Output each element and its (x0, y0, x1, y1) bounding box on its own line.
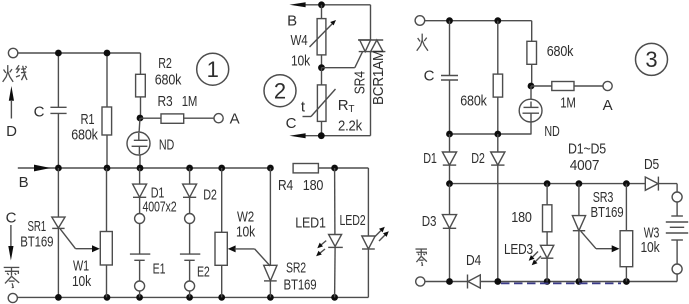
svg-text:ND: ND (544, 123, 559, 140)
resistor 1M circuit3 (531, 82, 603, 91)
svg-text:B: B (19, 174, 29, 191)
svg-text:A: A (603, 97, 613, 114)
wire: circuit1 top rail (18, 52, 141, 54)
svg-text:D5: D5 (644, 156, 659, 173)
wire: battery bottom to rail (676, 274, 678, 282)
wire: E2 to bottom rail (189, 291, 191, 297)
svg-text:BT169: BT169 (20, 234, 53, 251)
svg-text:ND: ND (159, 137, 174, 154)
svg-text:C: C (34, 104, 45, 121)
node: live terminal circuit3 (415, 16, 425, 26)
node: battery top connector circle (672, 192, 682, 202)
resistor R2 (136, 53, 146, 118)
blue dashed artifact line (501, 282, 621, 284)
svg-text:680k: 680k (460, 93, 487, 110)
LED3 light arrows (down-left) (529, 252, 541, 266)
thermistor Rt 2.2k (303, 68, 336, 136)
node: R2/R3/ND junction (137, 115, 144, 122)
node: top rail / 680k junction (494, 17, 501, 24)
label Rt 2.2k (338, 97, 363, 135)
wire: bus B circuit1 (18, 167, 369, 169)
svg-text:10k: 10k (236, 224, 256, 241)
label: huoxian (live wire) hand-drawn (3, 65, 27, 82)
SCR SR3 (572, 184, 585, 282)
circled number 1 (197, 53, 229, 85)
label SR3 BT169 (591, 189, 624, 221)
svg-text:C: C (424, 68, 435, 85)
label SR2 BT169 (284, 260, 317, 294)
triac SR4 gate wire (322, 52, 363, 68)
svg-text:2: 2 (274, 79, 286, 104)
svg-text:LED2: LED2 (340, 212, 366, 229)
svg-text:680k: 680k (71, 127, 98, 144)
svg-text:1M: 1M (560, 95, 576, 112)
node: neutral terminal circuit1 (8, 293, 17, 302)
resistor R3 (141, 114, 215, 123)
label ling (neutral) circuit1 hand-drawn (4, 267, 20, 287)
LED3 (540, 245, 553, 281)
LED1 light arrows (down-left) (316, 241, 326, 257)
wire: E1 to bottom rail (139, 291, 141, 297)
node: connector circle below E2 (185, 281, 195, 291)
diode D2 circuit3 (491, 134, 505, 282)
node: bottom rail dot (D3 branch) (446, 278, 453, 285)
circled number 3 (636, 43, 668, 75)
svg-text:680k: 680k (547, 43, 574, 60)
svg-text:A: A (230, 111, 240, 128)
node: connector circle above E2 (185, 214, 195, 224)
svg-text:180: 180 (511, 209, 532, 226)
diode D4 (points left, in bottom rail) (468, 275, 498, 289)
potentiometer W1 (100, 168, 112, 297)
diode D2 circuit1 (183, 168, 197, 214)
svg-text:1M: 1M (182, 93, 198, 110)
node: top rail / R1 junction (104, 50, 111, 57)
SR3 gate wire to W3 wiper (581, 231, 620, 252)
LED1 (328, 168, 343, 297)
battery E (charging) (666, 202, 688, 264)
potentiometer W4 (adjustable) (310, 5, 337, 68)
node: mid bus dots (446, 180, 630, 187)
svg-text:D3: D3 (422, 213, 437, 230)
svg-text:R4: R4 (278, 177, 293, 194)
SCR SR2 (264, 168, 277, 297)
wire: ND bottom to C/D branch (horizontal) (450, 133, 532, 135)
diode D5 (points right, in mid bus) (645, 177, 677, 191)
arrow B pointing right into bus (34, 165, 51, 172)
svg-text:SR1: SR1 (28, 218, 47, 235)
svg-text:180: 180 (303, 177, 324, 194)
wire: circuit3 bottom rail right of D4 (498, 281, 677, 283)
label R4 180 (278, 177, 323, 194)
svg-text:C: C (286, 115, 297, 132)
neon lamp ND circuit1 (127, 118, 150, 168)
svg-text:680k: 680k (155, 72, 182, 89)
label R1 680k (71, 111, 98, 144)
node: top rail / C junction (446, 17, 453, 24)
svg-text:LED1: LED1 (295, 215, 326, 232)
potentiometer W3 (620, 184, 633, 282)
label huo (live) circuit3 hand-drawn (417, 34, 428, 51)
LED2 light arrows (up-right) (375, 227, 389, 241)
node: terminal A circuit1 (214, 114, 223, 123)
circled number 2 (264, 75, 296, 107)
diode D1 circuit3 (442, 134, 456, 184)
label R3 1M (158, 93, 198, 110)
potentiometer W2 (215, 168, 227, 297)
wire: circuit3 mid bus (450, 183, 646, 185)
svg-text:D1~D5: D1~D5 (568, 141, 606, 158)
resistor 680k (middle branch) (493, 21, 502, 134)
LED2 (362, 168, 375, 297)
arrow pointing left to C (bottom) (289, 133, 305, 138)
resistor 680k (right branch) (527, 21, 537, 86)
node: connector circle below E1 (135, 281, 145, 291)
node: bus B junction dots (55, 165, 338, 172)
wire: circuit1 bottom rail (17, 296, 368, 298)
svg-text:D2: D2 (471, 150, 485, 167)
svg-text:R1: R1 (81, 111, 95, 128)
resistor R4 (in bus B) (293, 164, 318, 173)
arrow pointing left to B (top) (289, 2, 305, 7)
svg-text:E2: E2 (197, 264, 210, 281)
svg-text:D2: D2 (203, 187, 217, 204)
svg-text:10k: 10k (641, 239, 661, 256)
svg-text:BT169: BT169 (591, 204, 624, 221)
node: W4/Rt junction (318, 64, 325, 71)
label D1~D5 4007 (568, 141, 606, 175)
arrow D pointing up (9, 86, 14, 119)
node: bottom rail junction dots (55, 294, 338, 301)
node: 680k/1M/ND junction (528, 83, 535, 90)
arrow C pointing down (8, 225, 13, 261)
node: neutral terminal circuit3 (416, 277, 425, 286)
wire: circuit2 top rail to B (303, 4, 371, 6)
battery cell E2 (180, 224, 200, 282)
svg-text:C: C (6, 210, 17, 227)
label D1 4007x2 (143, 185, 177, 216)
SR1 gate wire to W1 wiper (60, 229, 100, 252)
svg-text:B: B (287, 13, 297, 30)
wire: circuit2 bottom rail to C (303, 135, 371, 137)
node: Rt bottom junction (318, 132, 325, 139)
svg-text:3: 3 (645, 47, 657, 72)
node: top rail / C branch junction (55, 50, 62, 57)
capacitor C circuit1 (50, 53, 66, 168)
diode D1 circuit1 (133, 168, 147, 214)
label W3 10k (641, 225, 661, 257)
label ling (neutral) circuit3 hand-drawn (415, 249, 427, 265)
svg-text:2.2k: 2.2k (338, 118, 363, 135)
label R2 680k (155, 55, 182, 89)
node: terminal A circuit3 (603, 81, 612, 90)
SCR SR1 (52, 168, 65, 297)
svg-text:D4: D4 (466, 252, 481, 269)
capacitor C circuit3 (441, 21, 458, 134)
svg-text:SR2: SR2 (286, 260, 306, 277)
diode D3 (442, 184, 456, 282)
node: W4 top junction (318, 1, 325, 8)
svg-text:10k: 10k (291, 53, 311, 70)
label W1 10k (72, 258, 92, 291)
svg-text:W1: W1 (73, 258, 89, 275)
node: bottom rail dots right (494, 278, 629, 285)
battery cell E1 (130, 224, 150, 282)
svg-text:4007: 4007 (570, 157, 600, 174)
svg-text:D: D (6, 123, 17, 140)
label W4 10k (291, 32, 311, 70)
resistor 180 circuit3 (543, 184, 552, 246)
svg-text:SR4: SR4 (352, 71, 369, 94)
resistor R1 (102, 53, 112, 168)
svg-text:E1: E1 (153, 261, 166, 278)
W2 wiper wire to SR2 gate (228, 245, 270, 266)
neon lamp ND circuit3 (519, 86, 542, 134)
svg-text:R2: R2 (158, 55, 172, 72)
wire: circuit3 top rail (425, 20, 532, 22)
svg-text:R3: R3 (158, 93, 173, 110)
wire: D5 to battery top terminal (676, 184, 678, 193)
svg-text:BCR1AM: BCR1AM (370, 50, 387, 105)
svg-text:D1: D1 (423, 150, 437, 167)
label W2 10k (236, 209, 256, 241)
svg-text:LED3: LED3 (504, 241, 533, 258)
node: connector circle above E1 (135, 214, 145, 224)
wire: circuit3 bottom rail left of D4 (425, 281, 468, 283)
label SR1 BT169 (20, 218, 53, 251)
svg-text:BT169: BT169 (284, 277, 317, 294)
triac SR4 BCR1AM (358, 5, 385, 136)
node: dots on y134 wire (446, 131, 501, 138)
svg-text:4007x2: 4007x2 (143, 199, 177, 216)
svg-text:W4: W4 (291, 32, 308, 49)
node: battery bottom connector circle (672, 264, 682, 274)
svg-text:1: 1 (207, 57, 219, 82)
svg-text:10k: 10k (72, 273, 92, 290)
node: live terminal (huoxian) circuit1 (8, 48, 17, 57)
